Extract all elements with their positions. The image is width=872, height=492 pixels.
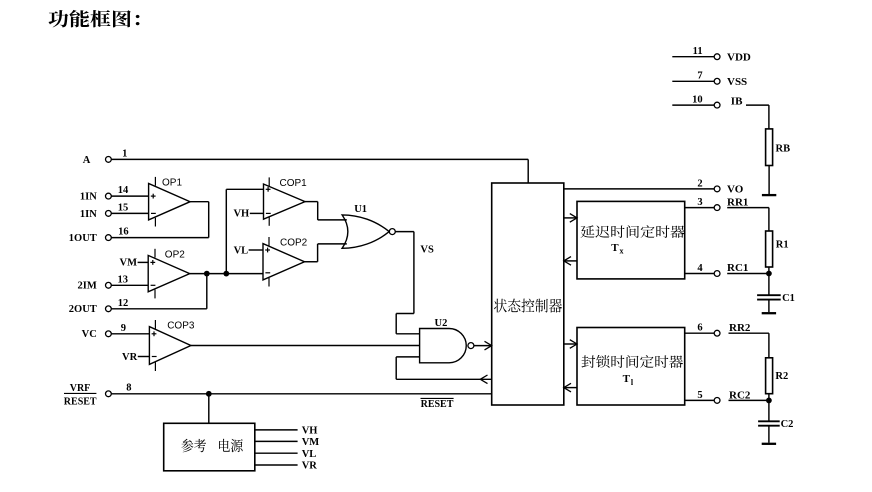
svg-text:T: T	[611, 242, 619, 254]
svg-text:VO: VO	[727, 184, 744, 196]
svg-text:R1: R1	[776, 239, 789, 250]
svg-text:COP3: COP3	[167, 321, 195, 332]
svg-text:7: 7	[697, 71, 702, 82]
svg-text:VR: VR	[302, 461, 318, 472]
svg-text:RC1: RC1	[727, 262, 748, 274]
svg-text:10: 10	[692, 95, 703, 106]
svg-text:COP1: COP1	[280, 178, 308, 189]
svg-text:RESET: RESET	[421, 399, 454, 410]
svg-text:RESET: RESET	[64, 397, 97, 408]
svg-text:VM: VM	[302, 437, 320, 448]
svg-text:VSS: VSS	[727, 76, 747, 88]
svg-text:8: 8	[126, 383, 131, 394]
svg-text:4: 4	[697, 263, 703, 274]
svg-text:VDD: VDD	[727, 51, 751, 63]
svg-text:VS: VS	[420, 244, 434, 255]
svg-text:VL: VL	[234, 245, 249, 256]
svg-text:12: 12	[118, 298, 129, 309]
svg-text:16: 16	[118, 227, 129, 238]
svg-text:6: 6	[697, 323, 702, 334]
svg-text:11: 11	[693, 46, 703, 57]
svg-text:13: 13	[118, 274, 129, 285]
svg-text:VC: VC	[82, 329, 97, 340]
svg-text:VM: VM	[120, 258, 138, 269]
svg-text:15: 15	[118, 203, 129, 214]
svg-text:VH: VH	[302, 426, 318, 437]
svg-text:3: 3	[697, 197, 702, 208]
svg-text:1: 1	[122, 149, 127, 160]
svg-text:U2: U2	[435, 318, 448, 329]
svg-text:2OUT: 2OUT	[69, 304, 97, 315]
svg-text:1OUT: 1OUT	[69, 233, 97, 244]
svg-text:VH: VH	[233, 209, 249, 220]
svg-text:COP2: COP2	[280, 238, 308, 249]
svg-text:A: A	[83, 155, 91, 166]
svg-text:9: 9	[121, 323, 126, 334]
svg-text:C2: C2	[781, 419, 794, 430]
svg-text:RC2: RC2	[729, 389, 751, 401]
svg-text:U1: U1	[354, 204, 367, 215]
svg-text:RR2: RR2	[729, 322, 751, 334]
svg-text:14: 14	[118, 185, 129, 196]
svg-text:OP2: OP2	[165, 250, 185, 261]
svg-text:l: l	[631, 378, 634, 387]
svg-text:x: x	[620, 247, 624, 256]
svg-text:RB: RB	[776, 144, 791, 155]
svg-text:VR: VR	[122, 352, 138, 363]
svg-text:C1: C1	[782, 293, 795, 304]
svg-text:IB: IB	[731, 95, 743, 107]
svg-text:VL: VL	[302, 449, 317, 460]
svg-text:1IN: 1IN	[80, 209, 97, 220]
svg-text:1IN: 1IN	[80, 192, 97, 203]
svg-text:VRF: VRF	[70, 383, 91, 394]
svg-text:5: 5	[697, 390, 702, 401]
svg-text:RR1: RR1	[727, 196, 748, 208]
svg-text:2: 2	[697, 178, 702, 189]
svg-text:OP1: OP1	[162, 178, 182, 189]
svg-text:T: T	[623, 373, 631, 385]
svg-text:R2: R2	[775, 371, 788, 382]
svg-text:2IM: 2IM	[78, 281, 97, 292]
